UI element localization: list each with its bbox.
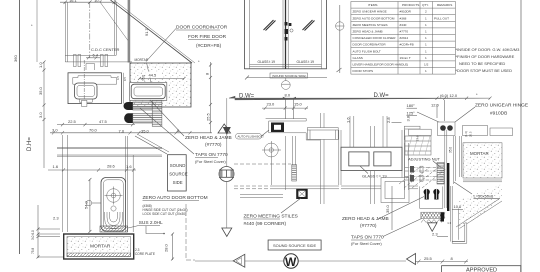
svg-text:*DOOR STOP MUST BE USED: *DOOR STOP MUST BE USED <box>456 68 513 73</box>
svg-text:MORTAR: MORTAR <box>135 58 149 62</box>
W circle <box>284 254 298 268</box>
diagonal leader to box <box>135 136 167 154</box>
stile block <box>271 123 284 133</box>
svg-text:2.3: 2.3 <box>53 216 59 221</box>
svg-text:DOOR COORDINATOR: DOOR COORDINATOR <box>176 25 228 31</box>
bolt centerline <box>83 60 85 104</box>
top dim line <box>60 1 116 5</box>
svg-text:6.4: 6.4 <box>93 53 99 58</box>
hinge centerline vertical <box>443 100 445 121</box>
verticals pair C below <box>371 171 375 204</box>
svg-text:SIDE: SIDE <box>173 180 183 185</box>
svg-text:DOOR STOPS: DOOR STOPS <box>353 69 374 73</box>
svg-text:47.5: 47.5 <box>99 119 108 124</box>
mortar text <box>88 242 111 249</box>
svg-text:2: 2 <box>425 10 427 14</box>
svg-text:75.8: 75.8 <box>31 248 35 254</box>
svg-text:10.0: 10.0 <box>454 204 463 209</box>
svg-text:FOR FIRE DOOR: FOR FIRE DOOR <box>188 34 227 40</box>
svg-text:28.0: 28.0 <box>164 243 169 252</box>
hinge knuckle <box>438 122 456 136</box>
svg-text:AUTO FLUSH BOLT: AUTO FLUSH BOLT <box>238 135 265 139</box>
svg-text:W: W <box>285 255 297 269</box>
svg-text:ZERO MEETING STILES: ZERO MEETING STILES <box>353 23 388 27</box>
svg-text:#2914: #2914 <box>400 36 409 40</box>
jamb seals <box>424 189 440 200</box>
svg-text:*FINISH OF DOOR HARDWARE: *FINISH OF DOOR HARDWARE <box>456 54 515 59</box>
svg-text:8.0: 8.0 <box>285 93 291 98</box>
filled arrow top <box>223 127 231 135</box>
verticals pair B <box>350 116 387 147</box>
weatherstrip row 1 <box>124 102 153 110</box>
svg-text:ZERO HEAD & JAMB: ZERO HEAD & JAMB <box>353 30 383 34</box>
right box verticals <box>120 73 122 104</box>
dim 23.0 / 15.0 <box>262 106 308 109</box>
svg-text:(6.0) 12.0: (6.0) 12.0 <box>440 93 458 98</box>
inner circle <box>107 189 121 203</box>
long dim chain line <box>229 96 490 100</box>
mortar block right <box>463 143 502 178</box>
svg-text:(For Steel Cover): (For Steel Cover) <box>351 241 382 246</box>
svg-text:CORE PLATE: CORE PLATE <box>135 252 155 256</box>
dim line 1.6/28.6/1.6 <box>48 168 136 171</box>
svg-text:180°: 180° <box>407 103 416 108</box>
up triangle marker <box>218 124 231 133</box>
svg-text:D.H=: D.H= <box>27 137 33 151</box>
svg-text:25.5: 25.5 <box>424 256 433 261</box>
inner stile lines <box>250 0 322 69</box>
small diagonal <box>100 2 128 41</box>
jamb seal channel <box>420 186 443 208</box>
bottom dim row <box>50 131 212 135</box>
right open triangle <box>407 254 416 265</box>
svg-text:19mm T: 19mm T <box>400 56 411 60</box>
svg-text:15.0: 15.0 <box>294 102 303 107</box>
hat profile <box>73 76 117 84</box>
svg-text:10.2: 10.2 <box>94 0 103 3</box>
svg-text:3.8: 3.8 <box>406 115 411 121</box>
leader to cover <box>128 226 139 229</box>
upper boxes <box>307 128 338 140</box>
svg-text:44.5: 44.5 <box>149 73 158 78</box>
right border line <box>520 0 522 272</box>
closer body <box>75 83 98 99</box>
svg-text:QTY.: QTY. <box>422 3 429 7</box>
svg-text:AUTO FLUSH BOLT: AUTO FLUSH BOLT <box>353 49 381 53</box>
svg-text:ITEMS: ITEMS <box>368 3 377 7</box>
left border line <box>19 0 21 254</box>
mortar text right <box>470 149 488 156</box>
nested left triangles <box>233 254 245 267</box>
svg-text:1.3: 1.3 <box>447 221 451 225</box>
lower mortar speckle <box>459 184 502 227</box>
mortar under band <box>463 179 502 181</box>
seal stems white gap <box>426 189 428 199</box>
svg-text:ZERO AUTO DOOR BOTTOM: ZERO AUTO DOOR BOTTOM <box>143 195 208 201</box>
elevation width dim <box>245 76 327 80</box>
svg-text:#7770: #7770 <box>400 30 409 34</box>
wall verticals pair A <box>320 113 324 204</box>
door hardware <box>285 22 288 26</box>
svg-text:C.D.C CENTER: C.D.C CENTER <box>91 47 120 52</box>
svg-text:1.0: 1.0 <box>38 62 43 68</box>
band lines <box>234 164 418 197</box>
svg-text:ZERO HEAD & JAMB: ZERO HEAD & JAMB <box>185 135 232 141</box>
svg-text:1/2: 1/2 <box>424 63 429 67</box>
side verticals <box>339 130 405 185</box>
door edge hatch column <box>437 163 444 185</box>
threshold crosshatch bar <box>421 212 445 218</box>
svg-text:TAPS ON 7770: TAPS ON 7770 <box>195 152 228 158</box>
svg-text:6.5: 6.5 <box>116 76 120 80</box>
svg-text:REMARKS: REMARKS <box>437 3 452 7</box>
svg-text:SUS 2.0HL: SUS 2.0HL <box>139 220 163 226</box>
weatherstrip row 2 <box>124 113 152 123</box>
inner rects <box>349 152 369 166</box>
svg-text:PULL OUT: PULL OUT <box>434 16 449 20</box>
svg-text:#440 (99 CORNER): #440 (99 CORNER) <box>244 221 287 227</box>
54.0 dim line <box>88 178 91 233</box>
wall bar <box>128 0 131 63</box>
small circle <box>111 206 116 211</box>
notes <box>456 47 521 73</box>
big diagonal brace <box>111 0 193 63</box>
slab lines <box>57 148 162 157</box>
svg-text:1.6: 1.6 <box>126 164 132 169</box>
svg-text:125°: 125° <box>407 111 416 116</box>
centerline <box>89 2 91 58</box>
svg-text:GLASS: GLASS <box>353 56 363 60</box>
svg-text:L=50x50x6: L=50x50x6 <box>474 194 494 199</box>
svg-text:1: 1 <box>425 16 427 20</box>
svg-text:#368: #368 <box>400 16 407 20</box>
leader lines <box>150 100 184 136</box>
svg-text:(For Steel Cover): (For Steel Cover) <box>195 159 226 164</box>
svg-text:54.0: 54.0 <box>84 200 89 209</box>
svg-text:23.0: 23.0 <box>267 102 276 107</box>
rod nuts <box>410 166 414 173</box>
door leaf verticals <box>62 135 133 232</box>
svg-text:APPROVED: APPROVED <box>466 267 497 272</box>
svg-text:D.W=: D.W= <box>374 93 390 99</box>
dashed section path <box>186 204 195 260</box>
svg-text:ZERO UNIGEAR HINGE: ZERO UNIGEAR HINGE <box>353 10 387 14</box>
svg-text:35.0: 35.0 <box>38 86 43 95</box>
frame verticals below <box>449 186 451 242</box>
L angle label leader <box>454 182 472 194</box>
frame verticals <box>65 2 116 62</box>
svg-text:16.1: 16.1 <box>69 0 78 3</box>
extension verticals <box>284 98 286 119</box>
svg-text:1: 1 <box>425 49 427 53</box>
glazing marks <box>264 20 276 31</box>
svg-text:GLASS t 19: GLASS t 19 <box>297 60 315 64</box>
leaf outline <box>266 119 320 141</box>
svg-text:GLASS t 19: GLASS t 19 <box>258 60 276 64</box>
mortar box <box>64 234 134 259</box>
svg-text:(1.3): (1.3) <box>464 131 468 137</box>
diagonal boundary <box>456 199 499 227</box>
coil zigzag <box>421 220 442 223</box>
svg-text:ADJUSTING NUT: ADJUSTING NUT <box>408 157 441 162</box>
lower glass box <box>381 178 409 203</box>
svg-text:MORTAR: MORTAR <box>470 151 489 156</box>
svg-text:1: 1 <box>425 30 427 34</box>
hinge rod rows <box>405 168 444 181</box>
steel angle verticals <box>454 136 462 184</box>
right vertical dim line <box>209 62 212 133</box>
svg-text:(#CDR+FB): (#CDR+FB) <box>196 43 222 49</box>
svg-text:20.5: 20.5 <box>469 131 473 137</box>
bottom dim line <box>415 260 468 264</box>
svg-text:MORTAR: MORTAR <box>90 244 111 250</box>
leader circle <box>86 200 92 206</box>
sound source side bubble <box>270 73 308 78</box>
svg-text:1: 1 <box>425 36 427 40</box>
svg-text:35.0: 35.0 <box>385 204 390 213</box>
svg-text:22.5: 22.5 <box>68 119 77 124</box>
svg-text:3.0: 3.0 <box>38 112 43 118</box>
svg-text:360: 360 <box>13 55 18 62</box>
section vertical line <box>226 98 228 166</box>
head frame bottom <box>65 55 132 71</box>
svg-text:1.6: 1.6 <box>53 164 59 169</box>
svg-text:SOURCE: SOURCE <box>169 172 188 177</box>
V circle <box>285 78 287 81</box>
bolt head <box>82 100 87 106</box>
closer slot in mortar window <box>131 84 165 99</box>
svg-text:DOOR COORDINATOR: DOOR COORDINATOR <box>353 43 387 47</box>
vertical dim line <box>43 61 46 169</box>
svg-text:1: 1 <box>425 23 427 27</box>
svg-text:#440: #440 <box>400 23 407 27</box>
svg-text:28.6: 28.6 <box>107 164 116 169</box>
horizontal section line <box>195 260 284 262</box>
left leaf rect <box>409 129 432 135</box>
circle symbol <box>219 167 234 182</box>
hatched threshold bar <box>100 226 128 232</box>
door edge verticals <box>444 130 446 208</box>
mortar bottom band <box>67 253 131 257</box>
sound source side bottom box <box>268 240 321 250</box>
svg-text:#910DB: #910DB <box>490 111 507 117</box>
door leaf section <box>405 136 431 155</box>
svg-text:#910DR: #910DR <box>400 10 412 14</box>
svg-text:1: 1 <box>425 56 427 60</box>
svg-text:35.0: 35.0 <box>449 147 453 153</box>
svg-text:NEED TO BE SPECIFIED: NEED TO BE SPECIFIED <box>459 61 505 66</box>
outer glass box <box>341 147 402 170</box>
mortar block outline <box>130 63 191 107</box>
dim row 22.5/47.5 <box>57 123 135 126</box>
outer frame <box>245 0 327 69</box>
svg-text:*INSIDE OF DOOR: G.W. 40KG/M3: *INSIDE OF DOOR: G.W. 40KG/M3 <box>456 47 521 52</box>
svg-text:3.0 6.0: 3.0 6.0 <box>31 230 35 240</box>
table texts <box>353 3 453 73</box>
svg-text:SOUND SOURCE SIDE: SOUND SOURCE SIDE <box>273 243 316 248</box>
mortar window <box>130 83 167 101</box>
bottom open triangle <box>222 228 232 237</box>
svg-text:ZERO UNIGEAR HINGE: ZERO UNIGEAR HINGE <box>475 103 528 109</box>
jamb stiffener hatch <box>152 100 162 126</box>
dim line small <box>392 121 402 123</box>
dashed diagonals <box>399 166 448 188</box>
closer feet <box>79 99 92 102</box>
svg-text:70.0: 70.0 <box>89 128 98 133</box>
svg-text:12.0: 12.0 <box>431 103 440 108</box>
leaders to hinge <box>417 112 441 123</box>
down triangle marker <box>428 223 438 232</box>
centerline circle symbol <box>336 22 344 30</box>
svg-text:#CDR+FB: #CDR+FB <box>400 43 414 47</box>
svg-text:ZERO HEAD & JAMB: ZERO HEAD & JAMB <box>342 216 389 222</box>
meeting stile block <box>296 189 308 199</box>
svg-text:25.5: 25.5 <box>206 112 211 121</box>
right vertical dim with circle <box>337 5 342 73</box>
auto door bottom body <box>101 178 126 232</box>
svg-text:ZERO MEETING STILES: ZERO MEETING STILES <box>244 214 298 220</box>
dim line 44.5 <box>138 77 186 80</box>
svg-text:1: 1 <box>425 43 427 47</box>
svg-text:LEVER HANDLE(FOR DOOR HANDLE): LEVER HANDLE(FOR DOOR HANDLE) <box>353 63 409 67</box>
svg-text:3.0: 3.0 <box>52 128 58 133</box>
sound source side box <box>168 155 187 191</box>
stile vertical pair <box>292 136 294 165</box>
svg-text:(#7770): (#7770) <box>360 223 377 229</box>
sill channel <box>452 223 467 243</box>
leader from label <box>146 29 176 62</box>
svg-text:7.0: 7.0 <box>119 129 125 134</box>
auto flush bolt bubble <box>236 134 262 140</box>
svg-text:35.0: 35.0 <box>142 75 146 81</box>
hatched stile strip <box>292 165 297 182</box>
svg-text:SOUND: SOUND <box>170 163 186 168</box>
door bottom arcs <box>105 212 123 229</box>
svg-text:(#7770): (#7770) <box>205 142 222 148</box>
svg-text:TAPS ON 7770: TAPS ON 7770 <box>351 235 384 241</box>
table grid <box>351 2 456 75</box>
wall line pair left <box>404 143 406 190</box>
svg-text:PRODUCTS: PRODUCTS <box>402 3 419 7</box>
circle detail <box>264 143 278 157</box>
black end blob <box>441 213 445 222</box>
svg-text:17.0: 17.0 <box>416 135 420 141</box>
svg-text:2.3: 2.3 <box>432 232 438 237</box>
svg-text:1: 1 <box>425 69 427 73</box>
left lower dims <box>37 205 64 259</box>
door edge black bar <box>447 163 449 211</box>
svg-text:LOCK SIDE CUT OUT (20x30): LOCK SIDE CUT OUT (20x30) <box>143 212 187 216</box>
svg-text:ZERO AUTO DOOR BOTTOM: ZERO AUTO DOOR BOTTOM <box>353 16 395 20</box>
svg-text:CONCEALED DOOR CLOSER: CONCEALED DOOR CLOSER <box>353 36 397 40</box>
frame head box <box>68 73 121 104</box>
left inner border line <box>36 0 38 62</box>
dim 44.5 <box>146 72 162 78</box>
right leaf rects <box>463 126 488 136</box>
svg-text:35.0: 35.0 <box>141 129 150 134</box>
